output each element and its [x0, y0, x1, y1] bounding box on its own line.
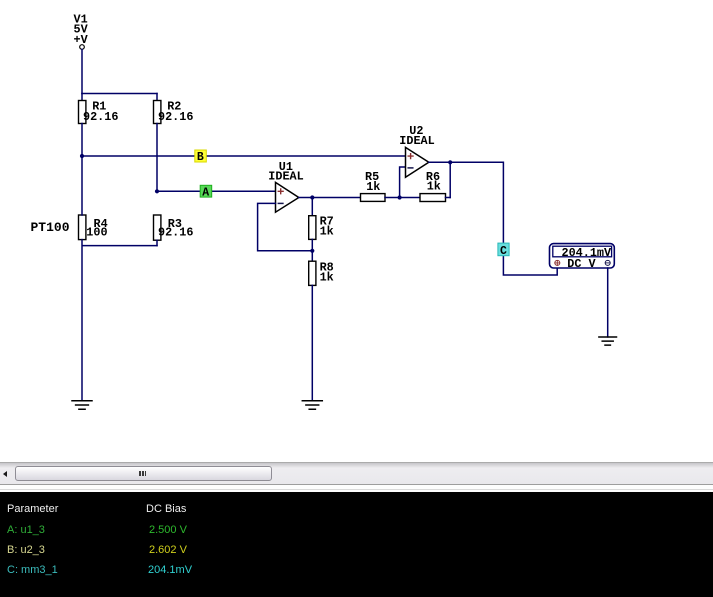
- label R1 value: [83, 100, 118, 124]
- op-amp U1: [276, 182, 299, 212]
- wire feedback node up to U2 inverting input: [400, 167, 406, 198]
- junction node at A: [155, 189, 159, 193]
- resistor R2: [154, 94, 161, 124]
- junction U2 output node: [448, 160, 452, 164]
- results row B: [7, 544, 45, 556]
- white gap below scrollbar: [0, 485, 713, 493]
- label R6 value: [426, 170, 441, 194]
- junction R5 R6 node: [398, 195, 402, 199]
- resistor R6: [400, 194, 451, 202]
- DC bias results panel: [0, 492, 713, 597]
- scrollbar left arrow button: [3, 471, 7, 477]
- junction U1 output node: [310, 195, 314, 199]
- junction R7 R8 node: [310, 249, 314, 253]
- op-amp U2: [406, 147, 429, 177]
- svg-text:B: B: [197, 151, 204, 164]
- scrollbar thumb grip: [139, 471, 141, 477]
- wire bridge top horizontal: [82, 93, 157, 95]
- svg-text:IDEAL: IDEAL: [268, 170, 303, 184]
- wire R1 bottom to node B: [81, 124, 83, 157]
- resistor R1: [79, 94, 86, 124]
- wire U2 output to voltmeter: [450, 162, 557, 275]
- op-amp U2 label: [399, 124, 434, 148]
- label R2 value: [158, 100, 193, 124]
- wire node B horizontal to U2 noninverting input: [82, 155, 406, 157]
- svg-text:92.16: 92.16: [158, 226, 193, 240]
- results row A: [7, 524, 45, 536]
- svg-text:92.16: 92.16: [158, 110, 193, 124]
- svg-text:PT100: PT100: [31, 220, 70, 235]
- node B label: [195, 150, 207, 164]
- wire U1 inverting input feedback: [258, 203, 313, 250]
- voltmeter plus terminal: [555, 260, 560, 265]
- resistor R3: [154, 215, 161, 246]
- svg-text:1k: 1k: [320, 270, 334, 284]
- svg-text:DC V: DC V: [567, 257, 596, 271]
- label R5 value: [365, 170, 380, 194]
- voltmeter MM3 body: [550, 244, 615, 268]
- svg-text:IDEAL: IDEAL: [399, 134, 434, 148]
- svg-text:1k: 1k: [366, 180, 380, 194]
- results row C: [7, 564, 58, 576]
- horizontal scrollbar: [0, 462, 713, 463]
- resistor R8: [309, 251, 316, 401]
- resistor R4: [79, 156, 86, 240]
- wire bridge bottom horizontal: [82, 240, 157, 401]
- voltage source V1 terminal: [80, 45, 85, 50]
- results header row: [7, 503, 58, 515]
- wire R5 right to feedback node: [385, 197, 400, 199]
- voltmeter minus terminal: [605, 260, 610, 265]
- wire V1 to bridge top: [81, 49, 83, 93]
- label R4 value: [86, 217, 107, 240]
- resistor R7: [309, 198, 316, 251]
- svg-text:1k: 1k: [320, 225, 334, 239]
- svg-text:1k: 1k: [427, 180, 441, 194]
- label R8 value: [320, 260, 334, 284]
- wire U1 output: [299, 197, 361, 199]
- resistor R5: [361, 194, 386, 202]
- ground below voltmeter: [599, 337, 617, 345]
- svg-text:C: C: [500, 245, 507, 258]
- svg-text:100: 100: [86, 226, 107, 240]
- voltage source V1 label: [74, 12, 89, 47]
- ground below R8: [302, 401, 322, 409]
- svg-text:A: A: [202, 186, 209, 199]
- scrollbar thumb: [15, 466, 272, 481]
- wire node A horizontal to U1 noninverting input: [157, 190, 276, 192]
- wire R2 bottom to node A: [156, 124, 158, 192]
- junction node at B: [80, 154, 84, 158]
- label R7 value: [320, 215, 334, 239]
- svg-text:92.16: 92.16: [83, 110, 118, 124]
- wire R6 right up to U2 output: [449, 162, 451, 197]
- op-amp U1 label: [268, 160, 303, 184]
- node C label: [498, 243, 509, 258]
- wire U2 output: [429, 161, 450, 163]
- node A label: [200, 185, 212, 199]
- label R3 value: [158, 217, 193, 240]
- ground below bridge: [72, 401, 92, 409]
- wire voltmeter minus to ground: [607, 268, 609, 337]
